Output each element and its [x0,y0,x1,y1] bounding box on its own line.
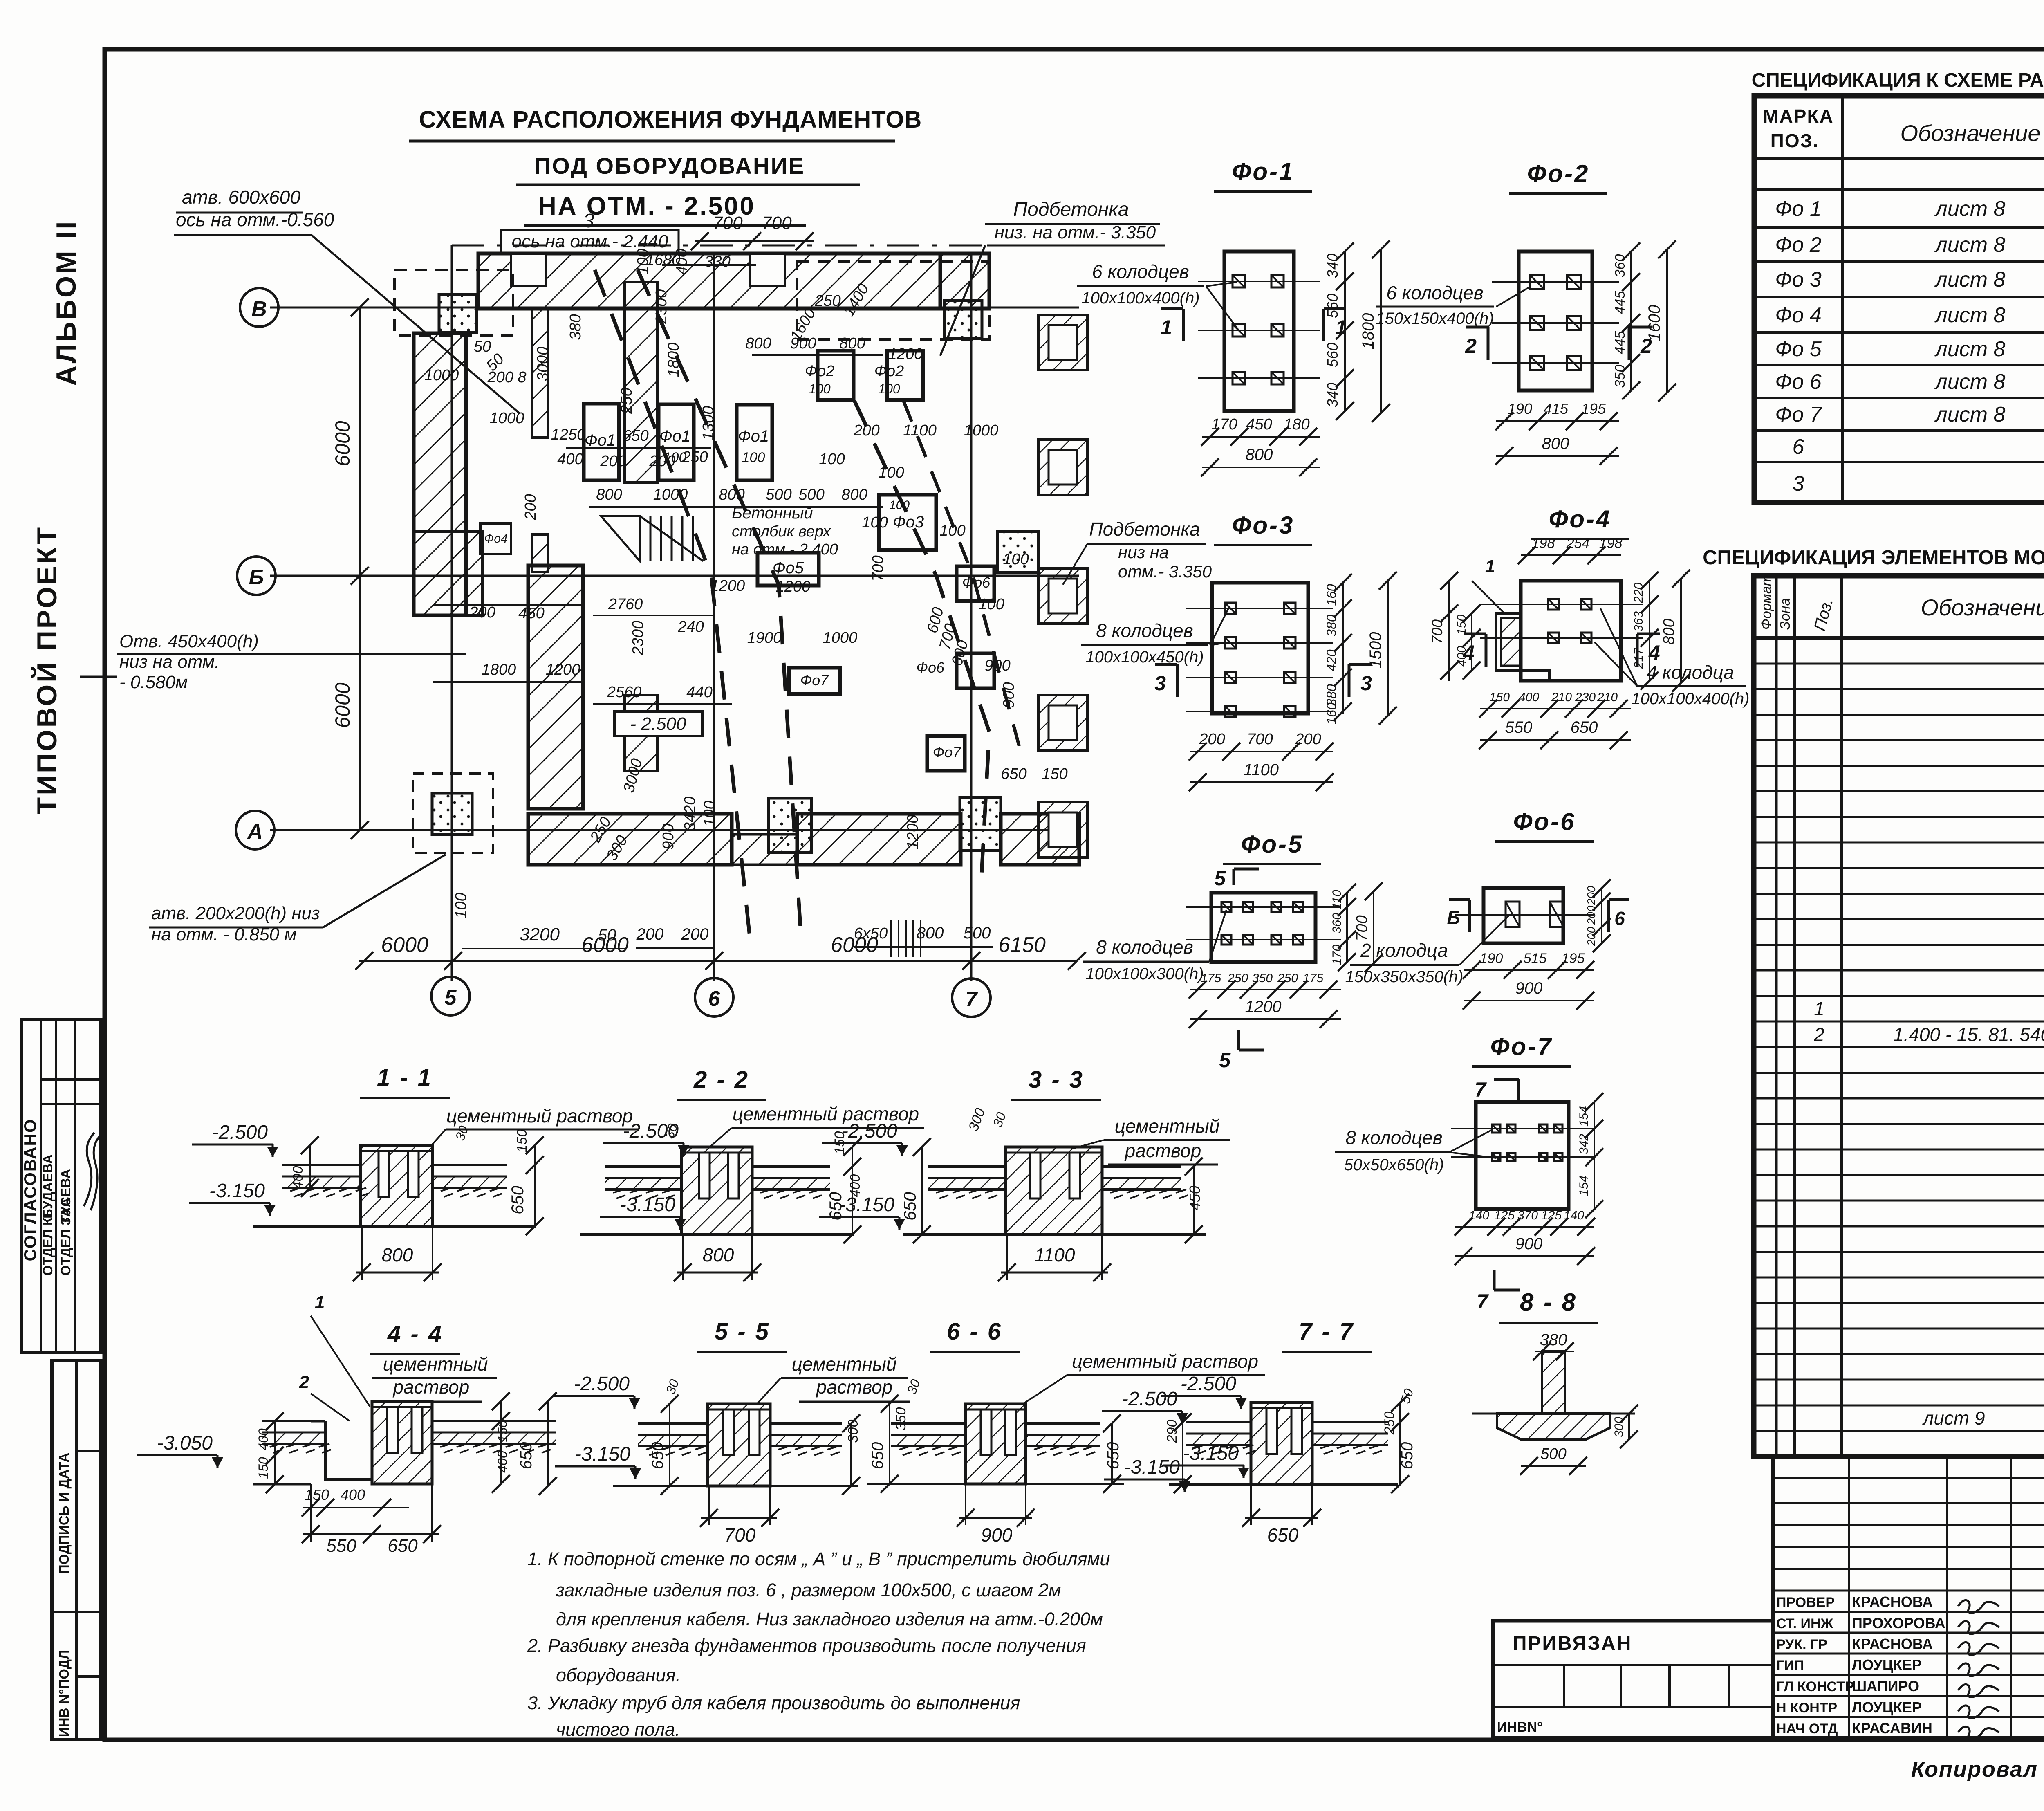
svg-text:1100: 1100 [1035,1244,1075,1266]
plan: axis row lines [270,307,1079,309]
concrete pad mid-right [997,532,1038,572]
plan: axis col lines [451,245,453,981]
svg-text:350: 350 [1612,365,1628,388]
svg-text:Фо 3: Фо 3 [1775,268,1822,292]
svg-text:1200: 1200 [888,346,923,363]
svg-text:100х100х300(h): 100х100х300(h) [1085,965,1204,983]
svg-text:700: 700 [724,1524,756,1546]
svg-text:Фо-6: Фо-6 [1513,808,1576,835]
svg-text:чистого пола.: чистого пола. [556,1719,680,1740]
svg-text:1 - 1: 1 - 1 [377,1064,433,1091]
table2 grid [1754,576,2044,1456]
svg-text:500: 500 [1540,1445,1566,1463]
svg-text:-3.050: -3.050 [157,1432,213,1454]
detail Fo-7 sect mark bottom [1493,1270,1496,1290]
svg-text:СПЕЦИФИКАЦИЯ ЭЛЕМЕНТОВ МОНОЛИТ: СПЕЦИФИКАЦИЯ ЭЛЕМЕНТОВ МОНОЛИТНЫХ ФУНДАМ… [1703,547,2044,569]
svg-text:ПОДПИСЬ И ДАТА: ПОДПИСЬ И ДАТА [56,1453,72,1574]
svg-text:254: 254 [1566,536,1590,551]
section 6-6 body [966,1404,1026,1484]
svg-text:МАРКА: МАРКА [1763,105,1834,127]
svg-text:800: 800 [1246,446,1273,464]
svg-text:50: 50 [598,926,616,944]
svg-text:380: 380 [1540,1331,1567,1349]
svg-text:Фо-3: Фо-3 [1232,512,1295,539]
svg-text:5: 5 [1214,867,1226,890]
axis circle V [240,288,278,327]
svg-text:342: 342 [1577,1134,1591,1154]
svg-text:Фо 2: Фо 2 [1775,233,1822,257]
svg-text:ПРОХОРОВА: ПРОХОРОВА [1852,1615,1945,1631]
svg-text:ПОД ОБОРУДОВАНИЕ: ПОД ОБОРУДОВАНИЕ [534,153,805,179]
detail Fo-6 section marks 6 [1468,900,1471,932]
svg-text:столбик верх: столбик верх [732,523,831,540]
svg-text:6 - 6: 6 - 6 [947,1318,1002,1345]
table1 grid [1754,96,2044,503]
svg-text:5: 5 [445,986,457,1010]
dashed outline upper-left [394,270,513,335]
Fo7 rect 1 [789,668,840,694]
svg-text:700: 700 [1429,619,1446,644]
titleblock privyazan box [1493,1621,1773,1738]
svg-text:6000: 6000 [331,682,354,728]
section 4-4 body [372,1401,432,1484]
narrow hatched strip left-mid upper [532,308,548,438]
svg-text:154: 154 [1577,1176,1591,1196]
svg-text:закладные изделия поз. 6 ,: закладные изделия поз. 6 , размером 100х… [556,1580,1061,1600]
svg-text:3: 3 [1793,472,1804,496]
svg-text:400: 400 [557,451,583,468]
stamp box podpis/inv [52,1361,101,1740]
svg-text:450: 450 [1246,416,1272,433]
svg-text:раствор: раствор [816,1376,893,1398]
axis circle 5 [431,977,470,1015]
svg-text:160: 160 [1324,702,1339,725]
detail Fo-4 left dims [1448,581,1450,681]
svg-text:1000: 1000 [823,629,858,646]
svg-text:Фо6: Фо6 [916,659,945,676]
section 7-7 body [1251,1403,1312,1484]
svg-text:370: 370 [1517,1209,1538,1222]
svg-text:125: 125 [1541,1209,1562,1222]
svg-text:100: 100 [878,381,900,396]
svg-text:650: 650 [388,1536,418,1556]
svg-text:200: 200 [1295,731,1321,748]
svg-text:800: 800 [703,1244,734,1266]
svg-text:1900: 1900 [747,629,782,646]
svg-text:650: 650 [1104,1442,1122,1470]
svg-text:3420: 3420 [681,797,699,831]
svg-text:150: 150 [305,1486,329,1503]
svg-text:атв. 200х200(h) низ: атв. 200х200(h) низ [151,903,320,923]
svg-text:6000: 6000 [331,421,354,466]
detail Fo-1 section marks 1 [1182,309,1185,341]
svg-text:КРАСАВИН: КРАСАВИН [1852,1720,1932,1737]
heavy dashed cable routes [595,270,750,940]
svg-text:800: 800 [839,335,865,352]
wide mid wall below B [528,566,583,809]
svg-text:340: 340 [1324,254,1341,278]
svg-text:200: 200 [469,604,495,621]
svg-text:200: 200 [636,925,664,943]
svg-text:3000: 3000 [534,347,551,381]
svg-text:1800: 1800 [482,661,516,678]
Fo1 rect 2 [659,404,694,480]
svg-text:отм.- 3.350: отм.- 3.350 [1118,562,1212,581]
svg-text:лист 8: лист 8 [1934,403,2006,426]
svg-text:6x50: 6x50 [854,925,888,942]
svg-text:900: 900 [984,657,1010,674]
svg-text:900: 900 [1515,979,1543,997]
svg-text:1. К подпорной стенке по ося: 1. К подпорной стенке по осям „ А ” и „ … [527,1548,1110,1569]
svg-text:250: 250 [1382,1412,1397,1435]
svg-text:низ. на отм.- 3.350: низ. на отм.- 3.350 [995,222,1156,242]
svg-text:Отв. 450х400(h): Отв. 450х400(h) [119,631,259,651]
svg-text:400: 400 [341,1486,365,1503]
svg-text:5: 5 [1219,1049,1231,1072]
svg-text:210: 210 [1551,691,1572,704]
svg-text:560: 560 [1324,294,1341,318]
svg-text:3: 3 [1360,672,1372,695]
svg-text:200: 200 [1585,905,1598,925]
svg-text:330: 330 [704,253,730,270]
svg-text:125: 125 [1494,1209,1515,1222]
svg-text:195: 195 [1562,951,1585,966]
svg-text:Фо5: Фо5 [773,559,804,577]
svg-text:500: 500 [766,486,791,503]
svg-text:Фо-1: Фо-1 [1232,158,1295,185]
svg-text:3. Укладку труб для кабеля: 3. Укладку труб для кабеля производить д… [527,1692,1020,1713]
svg-text:160: 160 [1324,584,1339,606]
svg-text:100х100х450(h): 100х100х450(h) [1085,648,1204,666]
svg-text:Фо1: Фо1 [585,431,616,449]
svg-text:лист 8: лист 8 [1934,303,2006,327]
detail Fo-2 section marks 2 [1487,327,1490,360]
svg-text:650: 650 [517,1442,535,1470]
bottom band pad 1 [769,798,811,853]
concrete pad top-right [944,301,982,339]
svg-text:5 - 5: 5 - 5 [715,1318,770,1345]
svg-text:1600: 1600 [1645,305,1663,341]
svg-text:ЛОУЦКЕР: ЛОУЦКЕР [1852,1699,1922,1716]
detail Fo-7 bottom dims [1455,1226,1594,1228]
svg-text:лист 9: лист 9 [1922,1407,1985,1429]
svg-text:360: 360 [1330,913,1344,934]
svg-text:250: 250 [814,292,840,310]
axis circle B [237,557,276,595]
top hatched retaining wall band [478,254,940,309]
svg-text:-2.500: -2.500 [1122,1388,1177,1410]
svg-text:ШАПИРО: ШАПИРО [1852,1678,1919,1694]
section 5-5 body [708,1404,770,1486]
svg-text:100: 100 [742,450,765,465]
svg-text:Формат: Формат [1759,574,1774,630]
detail Fo-2 body [1519,251,1592,390]
svg-text:350: 350 [1252,972,1273,985]
Fo6 rect 1 [957,566,994,601]
svg-text:- 2.500: - 2.500 [630,714,687,734]
svg-text:1800: 1800 [1359,313,1377,350]
section 5-5 bottom dim [701,1517,777,1519]
svg-text:1100: 1100 [903,422,937,439]
svg-text:Обозначение: Обозначение [1900,120,2040,146]
svg-text:100: 100 [819,451,845,468]
svg-text:400: 400 [290,1166,306,1189]
svg-text:380: 380 [1324,615,1339,637]
svg-text:2: 2 [1813,1024,1824,1045]
svg-text:3200: 3200 [520,925,560,945]
svg-text:ОТДЕЛ КГ: ОТДЕЛ КГ [40,1210,55,1276]
svg-text:6: 6 [1614,908,1625,929]
svg-text:Фо3: Фо3 [893,513,924,531]
narrow hatched strip left-mid lower [532,534,548,572]
svg-text:6150: 6150 [998,933,1046,957]
svg-text:250: 250 [681,449,708,466]
left wall corner stub at axis B [414,532,482,615]
svg-text:500: 500 [964,924,991,942]
svg-text:400: 400 [495,1451,510,1473]
svg-text:оборудования.: оборудования. [556,1665,681,1685]
svg-text:100: 100 [809,381,831,396]
svg-text:2300: 2300 [630,621,647,656]
svg-text:650: 650 [649,1442,667,1470]
svg-text:210: 210 [1597,691,1618,704]
svg-text:1.400 - 15. 81. 540 - 09: 1.400 - 15. 81. 540 - 09 [1893,1024,2044,1045]
svg-text:1: 1 [1485,557,1495,577]
svg-text:7: 7 [1477,1290,1489,1313]
svg-text:Фо 5: Фо 5 [1775,337,1822,361]
Fo6 rect 2 [957,653,994,688]
svg-text:220: 220 [1632,583,1645,604]
section 2-2 body [681,1147,752,1234]
section 3-3 bottom dim [1001,1272,1108,1274]
svg-text:250: 250 [618,388,635,414]
svg-text:200: 200 [681,925,709,943]
detail Fo-1 body [1224,251,1294,411]
svg-text:-2.500: -2.500 [842,1120,897,1142]
svg-text:Фо2: Фо2 [874,363,904,380]
svg-text:290: 290 [1164,1420,1180,1443]
section 1-1 bottom dim [356,1272,439,1274]
section 7-7 bottom dim [1245,1517,1318,1519]
section 4-4 bottom dims [303,1507,409,1508]
svg-text:раствор: раствор [1124,1140,1201,1161]
svg-text:для крепления кабеля. Низ: для крепления кабеля. Низ закладного изд… [556,1609,1103,1629]
section 2-2 right dims [852,1147,853,1234]
svg-text:6000: 6000 [381,933,428,957]
concrete pad top-left [439,294,477,332]
svg-text:1000: 1000 [653,486,688,503]
svg-text:-3.150: -3.150 [620,1194,675,1216]
svg-text:Фо1: Фо1 [659,427,690,445]
svg-text:175: 175 [1303,972,1323,985]
svg-text:800: 800 [745,335,771,352]
svg-text:450: 450 [1186,1186,1203,1210]
svg-text:154: 154 [1577,1106,1591,1127]
svg-text:900: 900 [660,824,677,849]
svg-text:700: 700 [1247,731,1273,748]
svg-text:415: 415 [1544,400,1569,417]
svg-text:150: 150 [514,1129,530,1153]
svg-text:200: 200 [522,494,539,520]
Fo3 rect [879,495,936,550]
svg-text:1800: 1800 [665,343,682,377]
svg-text:400: 400 [1519,691,1539,704]
svg-text:8 колодцев: 8 колодцев [1096,936,1193,958]
svg-text:1000: 1000 [964,422,999,439]
svg-text:-3.150: -3.150 [1183,1443,1239,1464]
svg-text:8 колодцев: 8 колодцев [1345,1127,1443,1148]
svg-text:4 колодца: 4 колодца [1647,662,1734,683]
Fo4 small rect [480,523,511,554]
stamp box soglasovano [22,1020,101,1353]
detail Fo-6 body [1484,888,1563,943]
svg-text:КРАСНОВА: КРАСНОВА [1852,1636,1933,1652]
svg-text:100: 100 [1003,551,1029,568]
dashed outline upper-right [797,262,989,339]
detail Fo-7 right dims [1594,1102,1595,1209]
svg-text:Б: Б [1447,907,1460,928]
svg-text:Копировал: Копировал [1911,1757,2038,1782]
svg-text:200: 200 [1585,927,1598,946]
svg-text:800: 800 [596,486,622,503]
svg-text:низ на: низ на [1118,543,1169,562]
detail Fo-7 sect mark top [1517,1079,1520,1100]
svg-text:Подбетонка: Подбетонка [1089,518,1200,540]
svg-text:800: 800 [719,486,744,503]
section 1-1 body [361,1145,433,1226]
svg-text:100: 100 [634,249,652,274]
svg-text:цементный: цементный [383,1353,488,1375]
svg-text:110: 110 [1330,890,1344,909]
svg-text:550: 550 [326,1536,356,1556]
svg-text:Фо7: Фо7 [933,744,962,761]
svg-text:-3.150: -3.150 [839,1194,894,1216]
svg-text:2 - 2: 2 - 2 [693,1066,749,1093]
detail Fo-6 right dims [1601,888,1602,943]
svg-text:БУДАЕВА: БУДАЕВА [40,1154,55,1219]
svg-text:550: 550 [1505,718,1533,736]
svg-text:1200: 1200 [710,577,745,595]
svg-text:198: 198 [1599,536,1623,551]
svg-text:900: 900 [1000,682,1018,708]
Fo2 rect 1 [818,351,854,400]
svg-text:1200: 1200 [776,578,811,595]
dashed axis offset line top [452,245,1079,247]
svg-text:240: 240 [677,618,704,635]
svg-text:400: 400 [256,1428,271,1450]
svg-text:1200: 1200 [1245,998,1282,1016]
svg-text:Фо 6: Фо 6 [1775,370,1822,394]
svg-text:650: 650 [623,427,648,444]
svg-text:445: 445 [1612,291,1628,314]
svg-text:200: 200 [1199,731,1225,748]
svg-text:100х100х400(h): 100х100х400(h) [1631,690,1749,708]
svg-text:НАЧ ОТД: НАЧ ОТД [1776,1721,1838,1737]
svg-text:8 - 8: 8 - 8 [1520,1288,1577,1316]
svg-text:100х100х400(h): 100х100х400(h) [1081,289,1199,307]
detail Fo-3 section marks 3 [1176,664,1179,697]
svg-text:7 - 7: 7 - 7 [1299,1318,1354,1345]
svg-text:Н КОНТР: Н КОНТР [1776,1700,1837,1716]
svg-text:лист 8: лист 8 [1934,337,2006,361]
left vertical dim 6000/6000 [359,307,361,830]
svg-text:560: 560 [1324,343,1341,367]
svg-text:3: 3 [1154,672,1166,695]
svg-text:200: 200 [1585,886,1598,905]
svg-text:-2.500: -2.500 [574,1373,630,1395]
svg-text:800: 800 [1542,435,1569,453]
detail Fo-3 body [1212,583,1308,714]
svg-text:50х50х650(h): 50х50х650(h) [1344,1156,1444,1174]
svg-text:800: 800 [1661,619,1678,644]
svg-text:1500: 1500 [1367,632,1385,669]
svg-text:300: 300 [845,1420,861,1443]
svg-text:2 колодца: 2 колодца [1360,940,1448,961]
svg-text:2560: 2560 [607,684,642,701]
svg-text:180: 180 [1284,416,1309,433]
detail Fo-4 bottom dims [1480,708,1631,709]
svg-text:8 колодцев: 8 колодцев [1096,620,1193,641]
axis circle 6 [695,978,733,1017]
svg-text:150: 150 [1455,615,1468,635]
detail Fo-4 dims top [1521,554,1621,556]
svg-text:2: 2 [299,1372,309,1392]
svg-text:650: 650 [1267,1524,1299,1546]
svg-text:В: В [251,297,267,321]
svg-text:198: 198 [1532,536,1555,551]
svg-text:140: 140 [1564,1209,1584,1222]
svg-text:400: 400 [673,249,690,274]
svg-text:800: 800 [841,486,867,503]
svg-text:Фо2: Фо2 [805,363,834,380]
svg-text:-3.150: -3.150 [575,1443,630,1465]
svg-text:1200: 1200 [546,661,580,678]
Fo1 rect 1 [584,404,619,480]
svg-text:400: 400 [1455,646,1468,667]
svg-text:50: 50 [474,338,491,355]
svg-text:190: 190 [1508,400,1532,417]
svg-text:380: 380 [567,314,584,340]
svg-text:Обозначение: Обозначение [1921,595,2044,620]
detail Fo-5 right dims [1346,893,1348,962]
svg-text:363: 363 [1632,611,1645,632]
svg-text:6: 6 [1793,435,1804,459]
svg-text:Фо-5: Фо-5 [1241,830,1304,858]
svg-text:340: 340 [1324,383,1341,407]
svg-text:1: 1 [1161,316,1172,339]
svg-text:АЛЬБОМ II: АЛЬБОМ II [51,220,82,386]
svg-text:360: 360 [1612,254,1628,278]
svg-text:-2.500: -2.500 [212,1122,268,1143]
svg-text:Подбетонка: Подбетонка [1013,199,1129,220]
stairs symbol [639,516,641,561]
svg-text:200: 200 [853,422,879,439]
svg-text:1200: 1200 [904,815,921,850]
svg-text:цементный: цементный [1115,1115,1220,1137]
svg-text:ГЛ КОНСТР: ГЛ КОНСТР [1776,1679,1854,1694]
svg-text:150х350х350(h): 150х350х350(h) [1345,968,1463,986]
svg-text:ЛОУЦКЕР: ЛОУЦКЕР [1852,1656,1922,1673]
svg-text:Фо 7: Фо 7 [1775,403,1822,426]
svg-text:650: 650 [900,1192,919,1221]
svg-text:700: 700 [762,213,792,233]
svg-text:2300: 2300 [653,289,670,325]
svg-text:Фо7: Фо7 [800,672,829,689]
svg-text:440: 440 [686,684,712,701]
svg-text:цементный: цементный [792,1353,897,1375]
Fo5 rect [758,553,819,586]
svg-text:Фо1: Фо1 [738,427,769,445]
